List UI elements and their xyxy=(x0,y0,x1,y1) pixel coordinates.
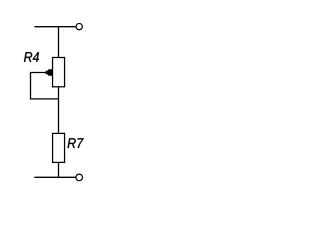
wire: vertical from top rail to potentiometer xyxy=(58,27,60,58)
resistor R7 body xyxy=(53,133,65,162)
potentiometer R4 wiper arrow xyxy=(46,69,53,76)
wire: top horizontal rail xyxy=(34,26,75,28)
wire: pot bottom to resistor R7 xyxy=(58,87,60,134)
potentiometer R4 body xyxy=(53,58,65,87)
label R4 xyxy=(24,52,39,62)
terminal: bottom open circle xyxy=(76,174,83,181)
wire: wiper return to lower terminal xyxy=(31,73,59,99)
terminal: top open circle xyxy=(76,23,82,29)
label R7 xyxy=(68,138,84,148)
wire: resistor bottom to bottom rail xyxy=(58,162,60,177)
wire: bottom horizontal rail xyxy=(34,176,75,178)
